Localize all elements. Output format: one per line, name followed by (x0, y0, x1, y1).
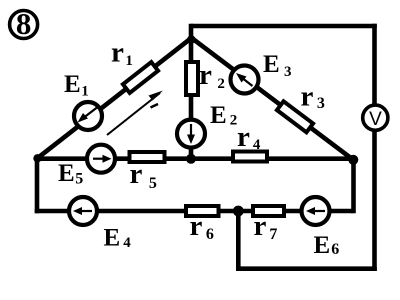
node apex junction dot (187, 35, 195, 43)
wire: top horizontal from apex stub to right side (191, 24, 377, 29)
wire: apex vertical stub down through r2 to E2 and middle node (189, 24, 194, 161)
wire: right short vertical from node C down to E6 wire (351, 159, 356, 214)
svg-text:r3: r3 (301, 81, 325, 113)
resistor R4 (233, 152, 267, 162)
resistor R2 (186, 62, 198, 95)
wire: left diagonal from node B up to apex (37, 38, 192, 159)
svg-text:E6: E6 (314, 232, 340, 259)
problem number badge 8 (10, 6, 38, 41)
resistor R7 (253, 206, 284, 216)
wire: right diagonal from apex down to node C (191, 38, 354, 161)
wire: bottom-left horizontal through E4 r6 D r7 E6 (35, 209, 354, 214)
EMF source E1 (circle with arrow toward lower-left) (74, 102, 102, 130)
EMF source E3 (circle with arrow toward upper-left) (231, 66, 259, 94)
svg-text:V: V (369, 109, 382, 130)
svg-text:r1: r1 (111, 37, 133, 70)
resistor R6 (186, 206, 219, 216)
resistor R5 (130, 152, 165, 162)
wire: middle horizontal from node B to node C (37, 156, 354, 161)
EMF source E4 (circle with left arrow) (69, 197, 97, 225)
svg-text:r2: r2 (199, 59, 225, 92)
svg-text:E1: E1 (64, 71, 89, 100)
voltmeter V (363, 105, 388, 130)
svg-text:E4: E4 (104, 225, 132, 252)
wire: vertical stub from bottom junction D down to bottom wire (236, 211, 241, 271)
EMF source E6 (circle with left arrow) (302, 197, 330, 225)
current direction arrow (thin) along left diagonal (107, 91, 163, 136)
EMF source E2 (circle with down arrow) (177, 120, 205, 148)
wire: left vertical from node B down to bottom-left wire (35, 159, 40, 214)
EMF source E5 (circle with right arrow) (87, 145, 115, 173)
svg-text:E5: E5 (58, 160, 83, 188)
wire: bottom horizontal (right side to junction stub) (236, 266, 377, 271)
node B junction dot (33, 154, 41, 162)
node C junction dot (348, 155, 358, 165)
svg-text:r4: r4 (237, 121, 261, 153)
svg-text:E2: E2 (210, 102, 237, 129)
resistor R1 (123, 62, 158, 93)
wire: right vertical upper (top wire to voltmeter) (372, 24, 377, 105)
svg-text:E3: E3 (263, 51, 291, 80)
wire: right vertical lower (voltmeter to bottom wire) (372, 131, 377, 272)
node middle junction dot (186, 154, 196, 164)
node D junction dot (233, 206, 244, 217)
resistor R3 (277, 101, 313, 132)
svg-text:8: 8 (16, 6, 32, 41)
